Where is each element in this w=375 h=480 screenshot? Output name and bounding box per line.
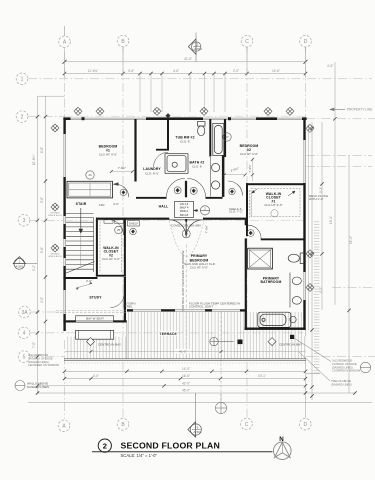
wall closet1 west (246, 183, 248, 236)
svg-text:11'-6¾": 11'-6¾" (88, 69, 99, 73)
door stub between laundry and bath2 doors (185, 181, 187, 198)
svg-text:4: 4 (23, 331, 26, 337)
terrace south edge (64, 359, 306, 361)
svg-text:26: 26 (88, 173, 92, 177)
svg-text:TRELLIS ABOVE: TRELLIS ABOVE (331, 379, 351, 383)
svg-text:4'-2": 4'-2" (319, 287, 323, 293)
svg-text:STUDY: STUDY (89, 296, 102, 300)
svg-text:14'-0": 14'-0" (182, 367, 190, 371)
svg-text:42'-0": 42'-0" (182, 381, 190, 385)
svg-text:CLG HT: 9'-0": CLG HT: 9'-0" (99, 152, 117, 156)
window on study south wall / bay (76, 320, 113, 323)
svg-text:25: 25 (117, 228, 121, 232)
wall bath block south (136, 197, 167, 199)
svg-text:WITH 1'-0": WITH 1'-0" (309, 197, 323, 201)
svg-text:C: C (245, 39, 249, 45)
grid circle 2 left (16, 111, 28, 123)
hall cabinet stack (175, 202, 194, 218)
svg-text:16R: 16R (99, 203, 105, 207)
closet2 door arc (108, 220, 124, 236)
wall laundry east upper (167, 119, 169, 150)
svg-text:A-501: A-501 (193, 430, 201, 434)
bedroom2 door arc (228, 181, 243, 196)
svg-text:2: 2 (103, 441, 107, 450)
grid circle D bottom (300, 418, 312, 430)
svg-text:SHELF: SHELF (129, 221, 139, 225)
svg-text:10'-1": 10'-1" (258, 374, 266, 378)
bottom-left note (28, 353, 60, 367)
svg-text:2x12 REDWOOD: 2x12 REDWOOD (28, 353, 48, 357)
primary bath vanity (290, 273, 301, 308)
grid circle D top (300, 35, 312, 52)
svg-text:(DASHED LINES): (DASHED LINES) (332, 365, 353, 369)
control joint dashed (185, 245, 187, 310)
circle tags hall doors (174, 187, 181, 194)
svg-text:7'-0": 7'-0" (32, 342, 36, 348)
hall door arcs to bath2 (167, 178, 206, 196)
primary tub (258, 312, 291, 327)
circle tag 27 (223, 133, 231, 141)
north arrow (274, 442, 292, 460)
svg-text:CLG HT: 9'-0": CLG HT: 9'-0" (264, 203, 282, 207)
svg-text:CLG HT: 9'-0": CLG HT: 9'-0" (190, 266, 208, 270)
svg-text:1: 1 (21, 77, 24, 83)
study north wall (63, 277, 97, 279)
svg-text:SHLF 4: SHLF 4 (180, 206, 189, 210)
svg-text:7'-6¼": 7'-6¼" (205, 225, 209, 233)
svg-text:COVERED IN WINDOW: COVERED IN WINDOW (332, 369, 361, 373)
closet2 shelf boxes (104, 220, 124, 223)
svg-text:3'-6": 3'-6" (40, 197, 44, 203)
svg-text:CLG HT: 9'-0": CLG HT: 9'-0" (240, 152, 258, 156)
svg-text:CENTRD IN BAY: CENTRD IN BAY (279, 342, 302, 346)
svg-text:3: 3 (23, 218, 26, 224)
wall tag diamonds right (306, 124, 314, 291)
terrace diamond tags (87, 338, 277, 346)
svg-text:DASHED LINES: DASHED LINES (27, 385, 49, 389)
study east wall (124, 277, 126, 323)
svg-text:45'-0": 45'-0" (182, 389, 190, 393)
svg-text:HALL: HALL (159, 204, 169, 208)
wall closet2 (96, 218, 126, 277)
svg-text:DR 2-8: DR 2-8 (180, 213, 189, 217)
windows on right wall (303, 140, 306, 300)
svg-text:CONTROL JOINT CENTERED ON WIND: CONTROL JOINT CENTERED ON WINDOW (181, 251, 185, 312)
svg-text:BAY W SEAT: BAY W SEAT (86, 317, 104, 321)
west wall primary bath lower (245, 309, 247, 330)
grid circle C bottom (241, 418, 253, 430)
grid circle C top (241, 35, 253, 52)
bed1 closet (67, 181, 113, 198)
dimension line subdivisions (65, 62, 306, 78)
left exterior wall (63, 117, 65, 331)
circle tag 25 closet2 (115, 226, 123, 234)
svg-text:BATHROOM: BATHROOM (261, 280, 282, 284)
svg-text:CLG: 8': CLG: 8' (180, 139, 191, 143)
svg-text:CENTRD IN BAY: CENTRD IN BAY (98, 342, 121, 346)
study dashed catwalk (56, 311, 127, 313)
primary bath toilet (288, 253, 304, 264)
svg-text:CATWALK OF SHOE: CATWALK OF SHOE (332, 362, 357, 366)
svg-text:9'-1": 9'-1" (319, 187, 323, 193)
study door arc (110, 294, 124, 308)
svg-text:ROD 2: ROD 2 (180, 209, 188, 213)
elevation diamond marker left (13, 257, 37, 270)
study south wall (63, 320, 126, 322)
tub room tub (213, 124, 224, 156)
svg-text:2'-0": 2'-0" (233, 69, 239, 73)
wall tubrm west (209, 119, 211, 157)
study diagonal dim (76, 282, 92, 290)
closet2 dashed shelving (100, 222, 122, 274)
svg-text:N: N (279, 436, 284, 443)
side deck hatch strip right (314, 221, 320, 374)
svg-text:D: D (303, 422, 307, 428)
svg-text:TREL: TREL (125, 304, 133, 308)
stair treads (66, 218, 94, 273)
grid line 1 horizontal dash-dot (28, 78, 372, 80)
svg-text:PROPERTY LINE: PROPERTY LINE (347, 108, 372, 112)
bottom-left detail circle (15, 381, 25, 391)
svg-text:4'-0": 4'-0" (113, 202, 119, 206)
svg-text:41'-6": 41'-6" (184, 57, 192, 61)
svg-text:CATWALK OF SHOE: CATWALK OF SHOE (28, 356, 53, 360)
bed1 door arc (114, 183, 129, 197)
svg-text:3A: 3A (21, 310, 28, 316)
svg-text:18: 18 (185, 232, 189, 236)
primary bath door arc (248, 225, 261, 238)
wall primary bath west (245, 220, 247, 226)
closet1 arrows (252, 189, 295, 196)
grid line 2 stubs (28, 116, 64, 118)
grid circle 5 left (30, 356, 64, 358)
title underline (92, 451, 273, 453)
closet1 ceiling light (271, 210, 278, 217)
svg-text:CLG: 8'-0": CLG: 8'-0" (145, 172, 159, 176)
svg-text:4'-6": 4'-6" (128, 69, 134, 73)
wall tag diamonds top (74, 107, 294, 118)
svg-text:A-511: A-511 (194, 47, 202, 51)
svg-text:5: 5 (23, 354, 26, 360)
stair down arrow (79, 208, 83, 266)
svg-text:2x12 REDWOOD: 2x12 REDWOOD (332, 359, 352, 363)
svg-text:2: 2 (21, 114, 24, 120)
top exterior wall (63, 117, 306, 120)
tub faucet circle (290, 316, 296, 322)
bay window seat (76, 316, 114, 322)
svg-text:TERRACE: TERRACE (159, 332, 177, 336)
wall tag diamonds left (51, 124, 59, 252)
svg-text:2'-6": 2'-6" (86, 279, 92, 283)
wall tubrm east / vanity (224, 119, 226, 157)
TERRACE label (160, 331, 178, 336)
title number circle (98, 439, 111, 452)
bath2 vanity sinks (211, 157, 220, 197)
svg-text:9'-2": 9'-2" (32, 265, 36, 271)
svg-text:7'-6½": 7'-6½" (248, 164, 252, 172)
closet1 dashed shelving (251, 189, 300, 217)
svg-text:10'-8¾": 10'-8¾" (32, 155, 36, 166)
svg-text:14'-6": 14'-6" (272, 69, 280, 73)
svg-text:(DASHED LINES): (DASHED LINES) (28, 360, 49, 364)
svg-text:(DASHED LINES): (DASHED LINES) (331, 382, 352, 386)
double door primary bedroom (169, 220, 203, 237)
right exterior wall (303, 117, 305, 330)
windows on south bedroom wall (133, 309, 240, 312)
svg-text:WHILE BLDG: WHILE BLDG (48, 256, 62, 258)
svg-text:CLG: 7'-2": CLG: 7'-2" (229, 210, 243, 214)
svg-text:5'-6": 5'-6" (40, 247, 44, 253)
grid circle 3 left (30, 219, 64, 221)
windows on left wall (63, 134, 66, 314)
grid circle 3A left (31, 311, 64, 313)
corner post (290, 335, 294, 339)
svg-text:SCALE: 1/4" = 1'-0": SCALE: 1/4" = 1'-0" (121, 453, 158, 458)
svg-text:4'-6": 4'-6" (327, 64, 333, 68)
svg-text:4'-6": 4'-6" (173, 69, 179, 73)
wall closet1 north (246, 183, 306, 185)
grid circle B bottom (117, 419, 129, 431)
wall bath2 vanity front (222, 155, 225, 197)
svg-text:CONTROL JOINT: CONTROL JOINT (189, 304, 213, 308)
svg-text:WHILE BLDG: WHILE BLDG (48, 215, 62, 217)
terrace dim line across hatch (65, 350, 306, 352)
terrace window centre circle (210, 337, 234, 345)
grid circle 1 left (16, 73, 28, 85)
hall elevation circle (200, 206, 209, 215)
grid circle B top (117, 35, 129, 52)
svg-text:LIN 1-6: LIN 1-6 (180, 202, 189, 206)
wall bed1 east (134, 119, 136, 182)
svg-text:CLG HT: 9'-0": CLG HT: 9'-0" (102, 257, 120, 261)
svg-text:6'-6": 6'-6" (40, 147, 44, 153)
south wall primary bedroom (127, 309, 247, 311)
svg-text:7'-6¼": 7'-6¼" (118, 166, 126, 170)
svg-text:27: 27 (225, 135, 229, 139)
bay window protrusion (76, 330, 114, 339)
grid circle A bottom (58, 420, 70, 432)
svg-text:A-501: A-501 (15, 264, 23, 268)
svg-text:16'-6": 16'-6" (182, 374, 190, 378)
terrace deck hatch upper (127, 312, 303, 337)
south wall primary bath (245, 328, 306, 330)
dimension line overall 41'-6" (63, 60, 308, 64)
svg-text:SECOND FLOOR PLAN: SECOND FLOOR PLAN (121, 441, 220, 451)
svg-text:D: D (304, 39, 308, 45)
svg-text:CENTERED ON WINDOW: CENTERED ON WINDOW (28, 363, 60, 367)
svg-text:16'-1": 16'-1" (329, 216, 333, 224)
wall laundry shelf (156, 149, 169, 151)
bottom-right note (332, 359, 361, 373)
svg-text:4'-5": 4'-5" (40, 297, 44, 303)
svg-text:21'-4": 21'-4" (349, 236, 353, 244)
svg-text:C: C (245, 422, 249, 428)
wall hall north (96, 218, 169, 220)
svg-text:CLG: 8': CLG: 8' (192, 164, 203, 168)
svg-text:COVED CEILING ABV: COVED CEILING ABV (171, 224, 201, 228)
windows on top wall (71, 117, 303, 120)
svg-text:4'-0": 4'-0" (93, 374, 99, 378)
elevation diamond marker top center (188, 33, 201, 62)
toilet bath2 (198, 122, 206, 136)
washer dryer (165, 154, 188, 174)
window centre symbol bottom (215, 393, 226, 414)
circle tag 26 bedroom1 (86, 171, 94, 179)
svg-text:STAIR: STAIR (76, 202, 87, 206)
grid circle 4 left (30, 332, 64, 334)
elevation diamond marker bottom (188, 393, 202, 437)
grid circle A top (59, 26, 71, 48)
grid dashed verticals B C through plan (122, 52, 124, 418)
shower (248, 248, 273, 269)
terrace deck hatch lower band (66, 337, 306, 359)
